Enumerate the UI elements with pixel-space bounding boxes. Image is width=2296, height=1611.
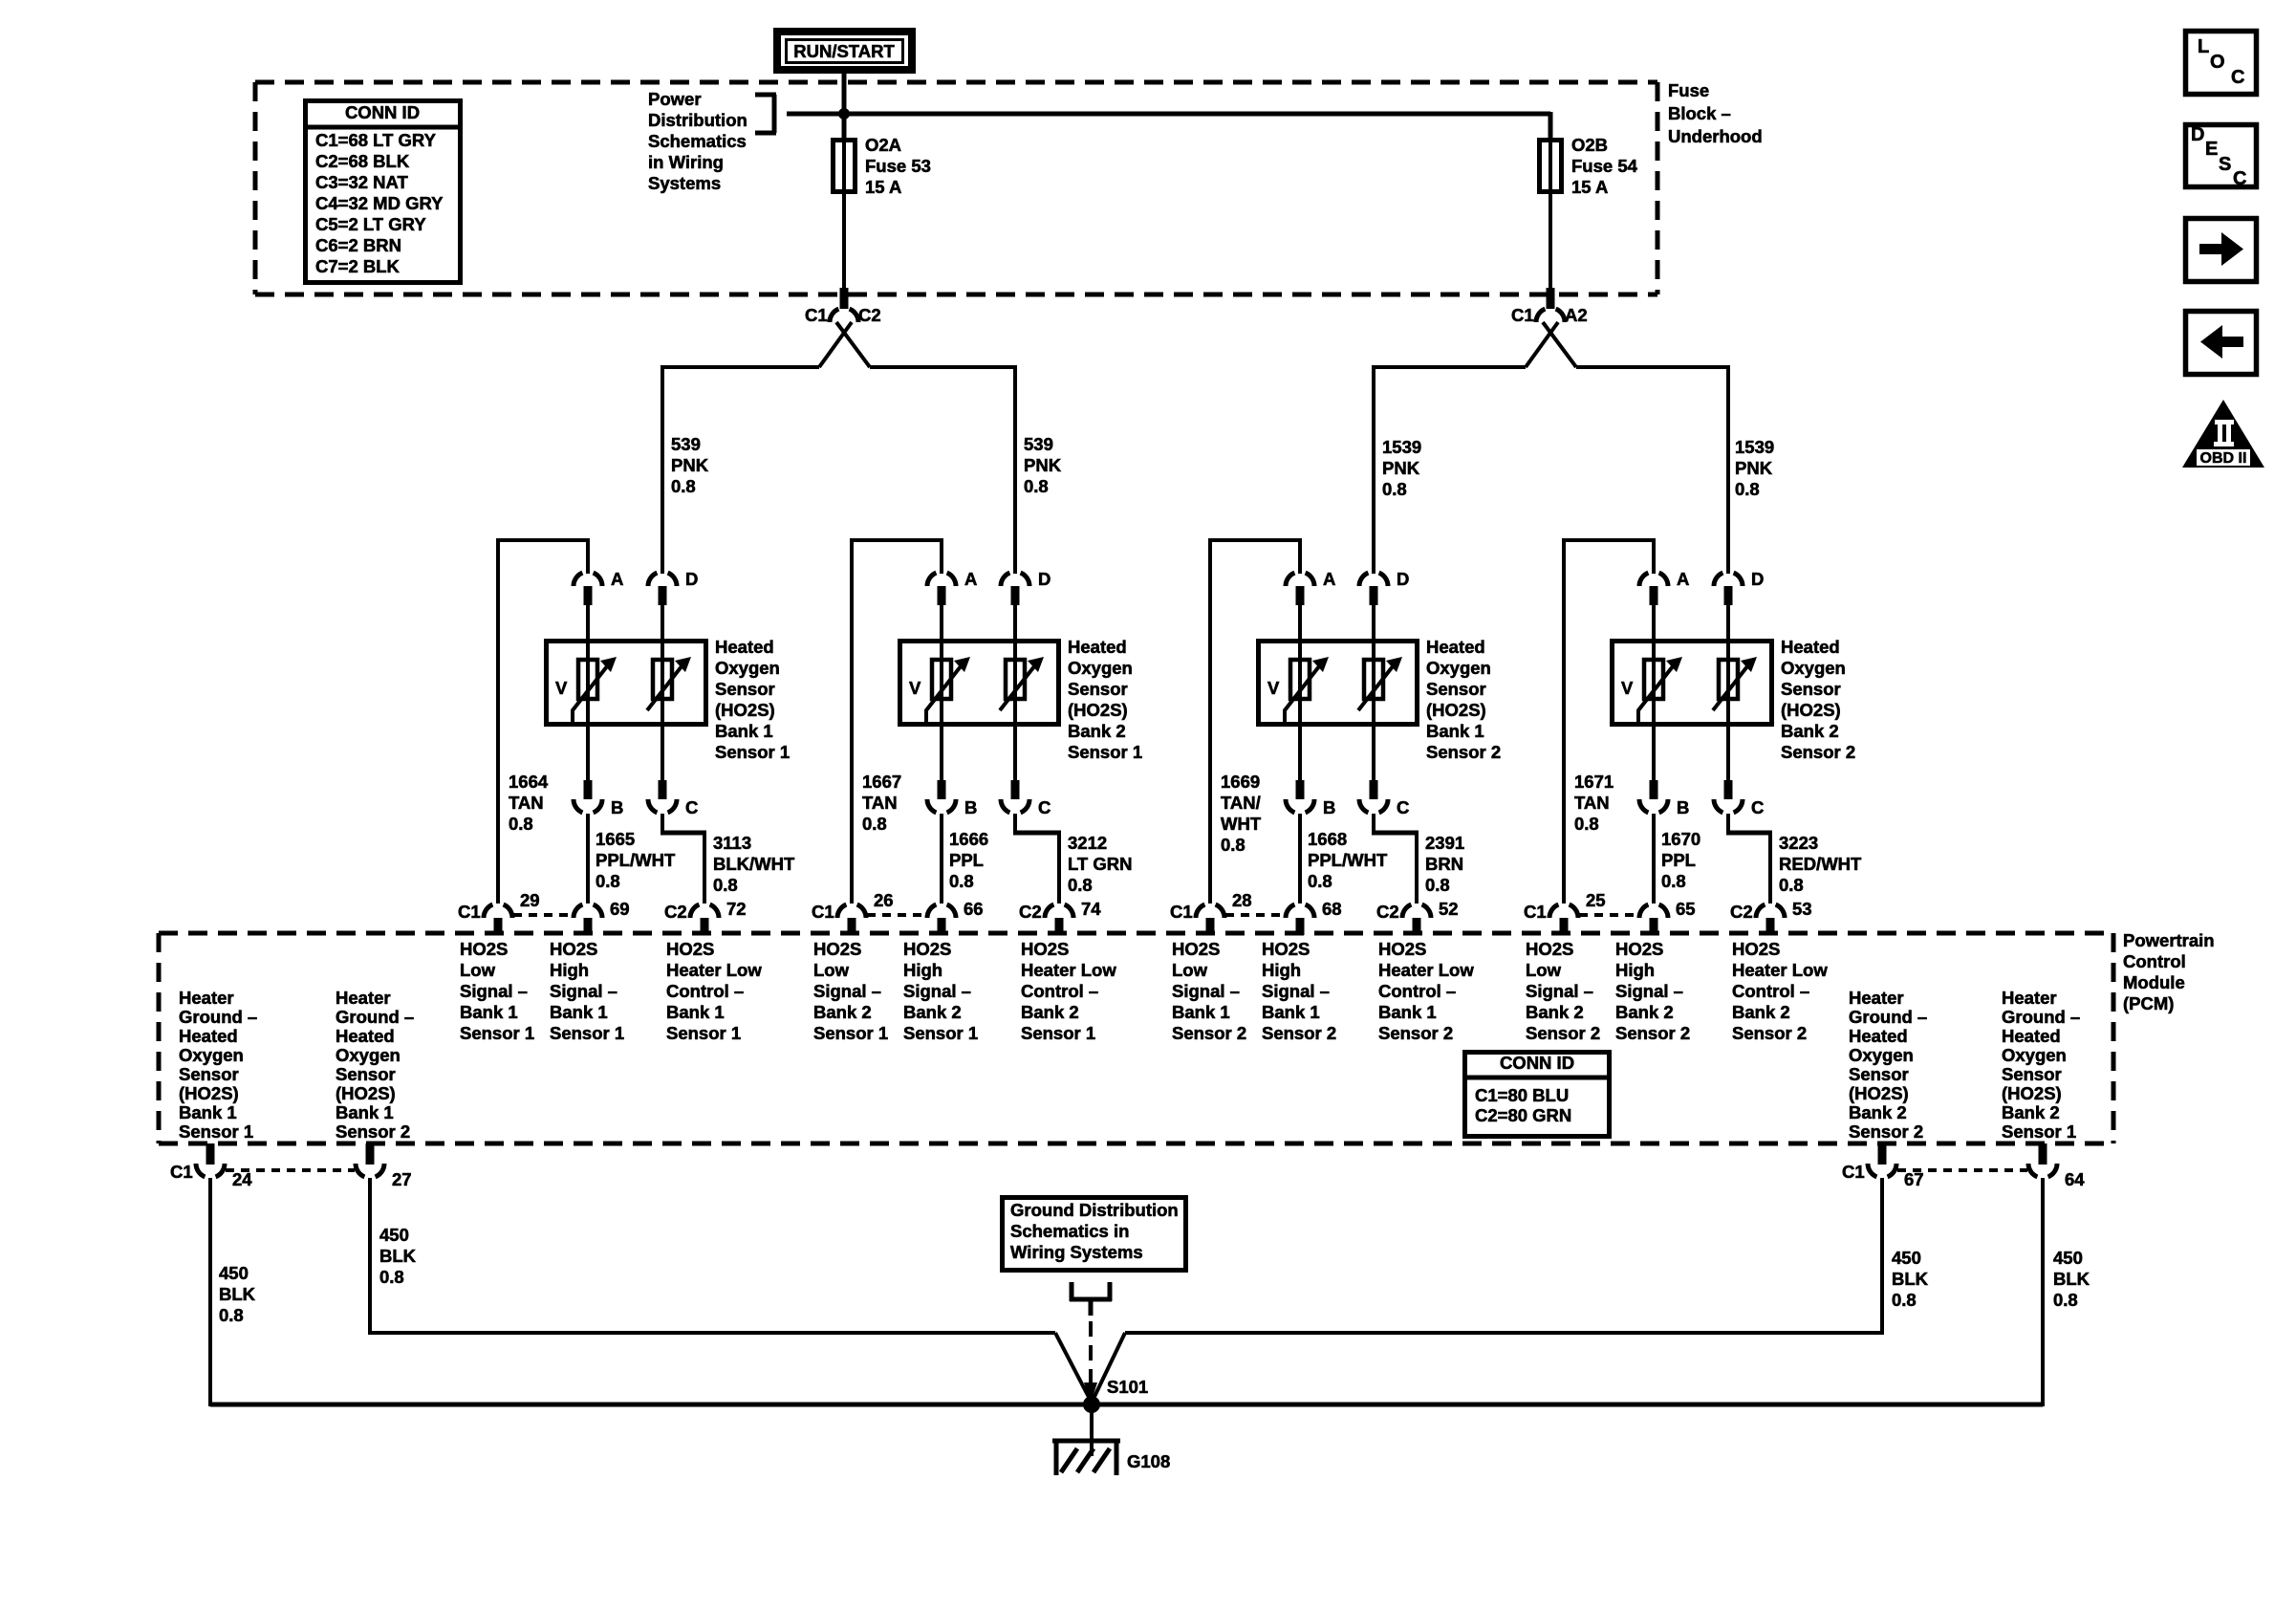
svg-text:Signal –: Signal – <box>460 981 528 1001</box>
svg-text:Powertrain: Powertrain <box>2123 930 2215 950</box>
svg-text:PPL/WHT: PPL/WHT <box>1308 850 1388 870</box>
fuse F54 label <box>1571 135 1638 197</box>
svg-text:Sensor 1: Sensor 1 <box>666 1023 741 1043</box>
svg-text:C1=68 LT GRY: C1=68 LT GRY <box>315 130 437 150</box>
svg-text:B: B <box>964 797 977 817</box>
svg-text:(HO2S): (HO2S) <box>1849 1083 1909 1103</box>
svg-text:C2: C2 <box>664 902 687 922</box>
wire label 1669 <box>1221 772 1262 855</box>
svg-text:C1: C1 <box>458 902 481 922</box>
svg-text:C: C <box>2233 168 2246 189</box>
pin B of HO2S 2 <box>927 725 977 817</box>
variable resistor (sense) HO2S 1 <box>573 639 617 727</box>
oxygen sensor HO2S bank 2 sensor 2 box <box>1613 642 1772 725</box>
svg-text:Sensor 1: Sensor 1 <box>550 1023 624 1043</box>
svg-text:0.8: 0.8 <box>1661 871 1686 891</box>
svg-text:0.8: 0.8 <box>219 1305 244 1325</box>
sensor 1 name label <box>715 637 790 762</box>
svg-text:Ground Distribution: Ground Distribution <box>1010 1200 1179 1220</box>
svg-text:G108: G108 <box>1127 1451 1170 1471</box>
svg-text:S101: S101 <box>1107 1377 1148 1397</box>
svg-text:C6=2 BRN: C6=2 BRN <box>315 235 401 255</box>
svg-text:Sensor 2: Sensor 2 <box>1781 742 1855 762</box>
svg-text:D: D <box>2191 124 2204 145</box>
PCM label: heater low control Bank 1 Sensor 2 <box>1378 939 1474 1043</box>
CONN ID table (PCM) <box>1464 1053 1610 1137</box>
svg-text:Low: Low <box>1172 960 1208 980</box>
svg-text:O: O <box>2210 52 2225 73</box>
svg-text:72: 72 <box>726 899 747 919</box>
svg-text:Bank 2: Bank 2 <box>1021 1002 1079 1022</box>
wire feed to fuse 54 <box>787 112 1550 140</box>
svg-text:Sensor: Sensor <box>1781 679 1841 699</box>
wire HO2S 3 heater low control <box>1372 814 1419 903</box>
pin D of HO2S 2 <box>1001 569 1051 641</box>
wire label 450 BLK (pin 27) <box>379 1225 417 1287</box>
svg-text:0.8: 0.8 <box>509 814 533 834</box>
PCM pin 69 connector <box>574 899 630 935</box>
svg-text:V: V <box>909 678 921 698</box>
svg-text:Bank 1: Bank 1 <box>1262 1002 1320 1022</box>
wire HO2S 2 heater low control <box>1013 814 1061 903</box>
svg-text:(HO2S): (HO2S) <box>336 1083 396 1103</box>
svg-text:S: S <box>2219 154 2231 175</box>
svg-text:0.8: 0.8 <box>1382 479 1407 499</box>
svg-text:Heater: Heater <box>1849 988 1904 1008</box>
svg-text:25: 25 <box>1586 890 1606 910</box>
svg-text:LT GRN: LT GRN <box>1068 854 1132 874</box>
svg-text:High: High <box>1262 960 1301 980</box>
svg-text:HO2S: HO2S <box>460 939 508 959</box>
svg-text:High: High <box>1615 960 1655 980</box>
RUN/START power feed box <box>777 32 912 70</box>
svg-text:PPL/WHT: PPL/WHT <box>596 850 676 870</box>
svg-text:Oxygen: Oxygen <box>179 1045 244 1065</box>
PCM label: heater low control Bank 1 Sensor 1 <box>666 939 762 1043</box>
variable resistor (sense) HO2S 4 <box>1638 639 1682 727</box>
svg-text:Sensor 1: Sensor 1 <box>2002 1121 2076 1142</box>
svg-text:Bank 1: Bank 1 <box>1378 1002 1437 1022</box>
connector C1/C2 (fuse block left) <box>805 288 881 325</box>
svg-text:(PCM): (PCM) <box>2123 993 2174 1013</box>
svg-text:Ground –: Ground – <box>2002 1007 2080 1027</box>
svg-text:B: B <box>1323 797 1335 817</box>
PCM pin 64 connector <box>2028 1143 2085 1189</box>
svg-text:Oxygen: Oxygen <box>336 1045 401 1065</box>
PCM label: high signal Bank 1 Sensor 1 <box>550 939 624 1043</box>
PCM pin 74 connector <box>1019 899 1101 935</box>
svg-text:RED/WHT: RED/WHT <box>1779 854 1862 874</box>
svg-text:PNK: PNK <box>671 455 709 475</box>
wire label 1668 <box>1308 829 1388 891</box>
splice V into S101 right <box>1092 1333 1125 1403</box>
svg-text:BRN: BRN <box>1425 854 1463 874</box>
DESC hotlink box <box>2186 124 2257 189</box>
pin D of HO2S 3 <box>1359 569 1409 641</box>
svg-text:C: C <box>1397 797 1409 817</box>
svg-text:1668: 1668 <box>1308 829 1347 849</box>
svg-text:67: 67 <box>1904 1169 1924 1189</box>
fuse F53 label <box>865 135 931 197</box>
svg-text:TAN: TAN <box>862 793 898 813</box>
powertrain control module dashed box <box>159 933 2113 1143</box>
svg-text:D: D <box>1397 569 1409 589</box>
power distribution bracket <box>755 95 776 133</box>
svg-text:Oxygen: Oxygen <box>1068 658 1133 678</box>
svg-text:(HO2S): (HO2S) <box>1068 700 1128 720</box>
svg-text:0.8: 0.8 <box>862 814 887 834</box>
svg-text:Bank 2: Bank 2 <box>813 1002 872 1022</box>
svg-text:PNK: PNK <box>1382 458 1420 478</box>
wire HO2S 3 signal low (pin A loop) <box>1208 538 1302 903</box>
svg-text:TAN: TAN <box>509 793 544 813</box>
PCM label: low signal Bank 2 Sensor 2 <box>1526 939 1600 1043</box>
pin C of HO2S 4 <box>1714 725 1764 817</box>
svg-text:C1: C1 <box>170 1162 193 1182</box>
PCM pin 27 connector <box>356 1143 412 1189</box>
svg-text:Schematics in: Schematics in <box>1010 1221 1129 1241</box>
wire label 1667 <box>862 772 901 834</box>
variable resistor (heater) HO2S 4 <box>1713 639 1757 727</box>
pin B of HO2S 1 <box>574 725 623 817</box>
svg-text:0.8: 0.8 <box>713 875 738 895</box>
wire 450 BLK from pin 64 <box>2041 1178 2045 1406</box>
pin C of HO2S 1 <box>648 725 698 817</box>
svg-text:RUN/START: RUN/START <box>793 41 895 61</box>
PCM pin 29 connector <box>458 890 540 935</box>
PCM pin 72 connector <box>664 899 747 935</box>
svg-text:66: 66 <box>964 899 984 919</box>
wire label 1664 <box>509 772 549 834</box>
svg-text:Signal –: Signal – <box>813 981 881 1001</box>
svg-text:Bank 2: Bank 2 <box>1849 1102 1907 1122</box>
wire from RUN/START <box>842 70 847 140</box>
variable resistor (sense) HO2S 2 <box>926 639 970 727</box>
PCM pin 26 connector <box>812 890 894 935</box>
wire HO2S 2 high signal <box>940 814 943 903</box>
svg-text:C2: C2 <box>1019 902 1042 922</box>
wire label 1665 <box>596 829 676 891</box>
svg-text:Fuse 53: Fuse 53 <box>865 156 931 176</box>
PCM pin 68 connector <box>1286 899 1342 935</box>
svg-text:1670: 1670 <box>1661 829 1700 849</box>
svg-text:WHT: WHT <box>1221 814 1262 834</box>
svg-text:C1=80 BLU: C1=80 BLU <box>1475 1085 1569 1105</box>
svg-text:Bank 1: Bank 1 <box>715 721 773 741</box>
svg-text:Sensor 2: Sensor 2 <box>1526 1023 1600 1043</box>
svg-text:Heater: Heater <box>2002 988 2057 1008</box>
svg-text:0.8: 0.8 <box>671 476 696 496</box>
pin C of HO2S 2 <box>1001 725 1051 817</box>
svg-text:1539: 1539 <box>1735 437 1774 457</box>
svg-text:A: A <box>1677 569 1689 589</box>
pin A of HO2S 1 <box>574 569 623 641</box>
svg-text:O2B: O2B <box>1571 135 1608 155</box>
svg-text:74: 74 <box>1081 899 1101 919</box>
connector C1/A2 (fuse block right) <box>1511 288 1588 325</box>
svg-text:D: D <box>1751 569 1764 589</box>
svg-text:Low: Low <box>460 960 496 980</box>
wire HO2S 1 high signal <box>586 814 590 903</box>
wire label 450 BLK (pin 67) <box>1892 1248 1929 1310</box>
svg-text:1671: 1671 <box>1574 772 1614 792</box>
svg-text:HO2S: HO2S <box>1262 939 1310 959</box>
PCM label: heater low control Bank 2 Sensor 1 <box>1021 939 1116 1043</box>
svg-text:A: A <box>964 569 977 589</box>
pin B of HO2S 4 <box>1639 725 1689 817</box>
wire label 3212 <box>1068 833 1132 895</box>
svg-text:A: A <box>1323 569 1335 589</box>
svg-text:Sensor 1: Sensor 1 <box>179 1121 253 1142</box>
svg-text:3212: 3212 <box>1068 833 1107 853</box>
svg-text:Heated: Heated <box>336 1026 395 1046</box>
wire 539 PNK left branch <box>662 365 819 574</box>
wire label 1539 PNK left <box>1382 437 1421 499</box>
svg-text:HO2S: HO2S <box>1615 939 1663 959</box>
dashed connector link <box>226 1168 355 1172</box>
svg-text:TAN/: TAN/ <box>1221 793 1261 813</box>
svg-text:Underhood: Underhood <box>1668 126 1763 146</box>
svg-text:Sensor 2: Sensor 2 <box>336 1121 410 1142</box>
wire HO2S 1 signal low (pin A loop) <box>496 538 590 903</box>
svg-text:A2: A2 <box>1565 305 1588 325</box>
svg-text:Signal –: Signal – <box>1615 981 1683 1001</box>
svg-text:BLK: BLK <box>1892 1269 1929 1289</box>
svg-text:0.8: 0.8 <box>1574 814 1599 834</box>
svg-text:A: A <box>611 569 623 589</box>
svg-text:(HO2S): (HO2S) <box>2002 1083 2062 1103</box>
svg-text:C2: C2 <box>858 305 881 325</box>
pin C of HO2S 3 <box>1359 725 1409 817</box>
svg-text:Signal –: Signal – <box>903 981 971 1001</box>
wire 1539 PNK left branch <box>1374 365 1526 574</box>
svg-text:Sensor 1: Sensor 1 <box>903 1023 978 1043</box>
svg-text:Ground –: Ground – <box>336 1007 414 1027</box>
svg-text:Sensor 1: Sensor 1 <box>1068 742 1142 762</box>
svg-text:Sensor 1: Sensor 1 <box>813 1023 888 1043</box>
node S101 <box>1083 1377 1148 1413</box>
svg-text:HO2S: HO2S <box>1021 939 1069 959</box>
heater element V label <box>1267 678 1280 698</box>
svg-text:Bank 2: Bank 2 <box>1526 1002 1584 1022</box>
wire 450 BLK from pin 24 <box>208 1178 212 1406</box>
svg-text:C7=2 BLK: C7=2 BLK <box>315 256 401 276</box>
svg-text:Heater Low: Heater Low <box>1021 960 1116 980</box>
fuse block underhood dashed box <box>255 82 1657 294</box>
svg-text:450: 450 <box>379 1225 409 1245</box>
svg-text:0.8: 0.8 <box>1892 1290 1917 1310</box>
svg-text:C: C <box>2231 67 2244 88</box>
svg-text:Bank 1: Bank 1 <box>1426 721 1484 741</box>
wire label 1666 <box>949 829 988 891</box>
svg-text:Bank 1: Bank 1 <box>179 1102 237 1122</box>
svg-text:1666: 1666 <box>949 829 988 849</box>
CONN ID table (fuse block) <box>305 101 461 283</box>
svg-text:L: L <box>2198 36 2209 57</box>
svg-text:C2: C2 <box>1376 902 1399 922</box>
svg-text:Control –: Control – <box>1021 981 1098 1001</box>
svg-text:Sensor: Sensor <box>715 679 775 699</box>
LOC hotlink box <box>2186 32 2257 95</box>
PCM label: high signal Bank 1 Sensor 2 <box>1262 939 1336 1043</box>
svg-text:Sensor 2: Sensor 2 <box>1849 1121 1923 1142</box>
svg-text:Heated: Heated <box>1781 637 1840 657</box>
svg-text:15 A: 15 A <box>1571 177 1608 197</box>
svg-text:0.8: 0.8 <box>379 1267 404 1287</box>
svg-text:C1: C1 <box>1842 1162 1865 1182</box>
svg-text:2391: 2391 <box>1425 833 1464 853</box>
svg-text:(HO2S): (HO2S) <box>1781 700 1841 720</box>
PCM label: low signal Bank 1 Sensor 1 <box>460 939 534 1043</box>
svg-text:HO2S: HO2S <box>1526 939 1573 959</box>
dashed wire to S101 <box>1084 1321 1097 1404</box>
svg-text:Signal –: Signal – <box>550 981 617 1001</box>
svg-text:PPL: PPL <box>1661 850 1696 870</box>
svg-text:450: 450 <box>219 1263 249 1283</box>
svg-text:1669: 1669 <box>1221 772 1260 792</box>
svg-text:64: 64 <box>2065 1169 2085 1189</box>
svg-text:Heated: Heated <box>2002 1026 2061 1046</box>
svg-text:65: 65 <box>1676 899 1696 919</box>
PCM pin 53 connector <box>1730 899 1812 935</box>
svg-text:Low: Low <box>1526 960 1562 980</box>
wire HO2S 4 signal low (pin A loop) <box>1562 538 1656 903</box>
svg-text:Sensor 1: Sensor 1 <box>1021 1023 1095 1043</box>
svg-text:Heated: Heated <box>715 637 774 657</box>
svg-text:HO2S: HO2S <box>903 939 951 959</box>
svg-text:BLK: BLK <box>219 1284 256 1304</box>
svg-text:0.8: 0.8 <box>1221 835 1245 855</box>
svg-text:Fuse 54: Fuse 54 <box>1571 156 1638 176</box>
PCM label: high signal Bank 2 Sensor 2 <box>1615 939 1690 1043</box>
svg-text:B: B <box>611 797 623 817</box>
splice X below C1/A2 <box>1526 322 1576 367</box>
svg-text:27: 27 <box>392 1169 412 1189</box>
svg-text:D: D <box>685 569 698 589</box>
svg-text:C: C <box>1751 797 1764 817</box>
svg-text:E: E <box>2205 139 2218 160</box>
dashed connector link <box>1225 913 1285 917</box>
svg-text:Sensor 1: Sensor 1 <box>715 742 790 762</box>
svg-text:69: 69 <box>610 899 630 919</box>
PCM label: heater ground Bank 1 Sensor 1 <box>179 988 257 1142</box>
wire 450 BLK from pin 27 <box>368 1178 1055 1335</box>
svg-text:1665: 1665 <box>596 829 635 849</box>
wire label 450 BLK (pin 64) <box>2053 1248 2090 1310</box>
PCM label <box>2123 930 2215 1013</box>
svg-text:C1: C1 <box>812 902 834 922</box>
svg-text:HO2S: HO2S <box>550 939 597 959</box>
svg-text:0.8: 0.8 <box>1068 875 1093 895</box>
svg-text:Control: Control <box>2123 951 2186 971</box>
splice V into S101 left <box>1055 1333 1092 1403</box>
svg-text:HO2S: HO2S <box>1172 939 1220 959</box>
wire HO2S 2 signal low (pin A loop) <box>850 538 943 903</box>
svg-text:Power: Power <box>648 89 702 109</box>
svg-text:3113: 3113 <box>713 833 751 853</box>
svg-text:(HO2S): (HO2S) <box>715 700 775 720</box>
svg-text:0.8: 0.8 <box>596 871 620 891</box>
svg-text:High: High <box>903 960 942 980</box>
fuse F54 (O2B) <box>1540 140 1562 289</box>
svg-text:C1: C1 <box>1524 902 1547 922</box>
svg-text:Heater Low: Heater Low <box>1378 960 1474 980</box>
svg-text:Bank 1: Bank 1 <box>550 1002 608 1022</box>
svg-text:OBD II: OBD II <box>2200 450 2247 467</box>
svg-text:28: 28 <box>1232 890 1252 910</box>
svg-text:Heater: Heater <box>179 988 234 1008</box>
PCM label: heater low control Bank 2 Sensor 2 <box>1732 939 1828 1043</box>
PCM pin 24 connector <box>170 1143 252 1189</box>
svg-text:BLK: BLK <box>379 1246 417 1266</box>
svg-text:HO2S: HO2S <box>1378 939 1426 959</box>
svg-text:Sensor 2: Sensor 2 <box>1732 1023 1807 1043</box>
svg-text:0.8: 0.8 <box>1024 476 1049 496</box>
wire label 1671 <box>1574 772 1614 834</box>
node: feed junction <box>838 108 850 120</box>
PCM label: high signal Bank 2 Sensor 1 <box>903 939 978 1043</box>
PCM pin 25 connector <box>1524 890 1606 935</box>
wire label 1539 PNK right <box>1735 437 1774 499</box>
svg-text:C1: C1 <box>1170 902 1193 922</box>
svg-text:Bank 1: Bank 1 <box>336 1102 394 1122</box>
wire S101 to ground <box>1090 1404 1094 1456</box>
wire 450 BLK from pin 67 <box>1125 1178 1884 1335</box>
svg-text:3223: 3223 <box>1779 833 1818 853</box>
svg-text:HO2S: HO2S <box>666 939 714 959</box>
svg-text:Bank 2: Bank 2 <box>1781 721 1839 741</box>
svg-text:Bank 2: Bank 2 <box>1732 1002 1790 1022</box>
wire label 2391 <box>1425 833 1464 895</box>
svg-text:Ground –: Ground – <box>1849 1007 1927 1027</box>
pin A of HO2S 3 <box>1286 569 1335 641</box>
svg-text:68: 68 <box>1322 899 1342 919</box>
wire label 539 PNK right <box>1024 434 1062 496</box>
fuse block label <box>1668 80 1763 146</box>
svg-text:CONN ID: CONN ID <box>345 102 420 122</box>
svg-text:Heated: Heated <box>1849 1026 1908 1046</box>
svg-text:Control –: Control – <box>666 981 744 1001</box>
svg-text:HO2S: HO2S <box>1732 939 1780 959</box>
svg-text:Oxygen: Oxygen <box>1849 1045 1914 1065</box>
svg-text:Oxygen: Oxygen <box>1781 658 1846 678</box>
svg-text:PNK: PNK <box>1735 458 1773 478</box>
svg-text:0.8: 0.8 <box>2053 1290 2078 1310</box>
variable resistor (sense) HO2S 3 <box>1285 639 1329 727</box>
svg-text:Heater Low: Heater Low <box>1732 960 1828 980</box>
svg-text:Systems: Systems <box>648 173 721 193</box>
svg-text:Oxygen: Oxygen <box>715 658 780 678</box>
svg-text:HO2S: HO2S <box>813 939 861 959</box>
wire 539 PNK right branch <box>870 365 1015 574</box>
svg-text:Sensor: Sensor <box>1849 1064 1909 1084</box>
svg-text:Signal –: Signal – <box>1262 981 1330 1001</box>
sensor 4 name label <box>1781 637 1855 762</box>
heater element V label <box>555 678 568 698</box>
svg-text:(HO2S): (HO2S) <box>1426 700 1486 720</box>
svg-text:Sensor 2: Sensor 2 <box>1262 1023 1336 1043</box>
wire HO2S 1 heater low control <box>661 814 706 903</box>
sensor 3 name label <box>1426 637 1501 762</box>
dashed connector link <box>867 913 926 917</box>
svg-text:Bank 1: Bank 1 <box>460 1002 518 1022</box>
variable resistor (heater) HO2S 3 <box>1358 639 1402 727</box>
pin A of HO2S 4 <box>1639 569 1689 641</box>
svg-text:539: 539 <box>671 434 701 454</box>
svg-text:Block –: Block – <box>1668 103 1731 123</box>
svg-text:Sensor: Sensor <box>336 1064 396 1084</box>
svg-text:Sensor: Sensor <box>179 1064 239 1084</box>
